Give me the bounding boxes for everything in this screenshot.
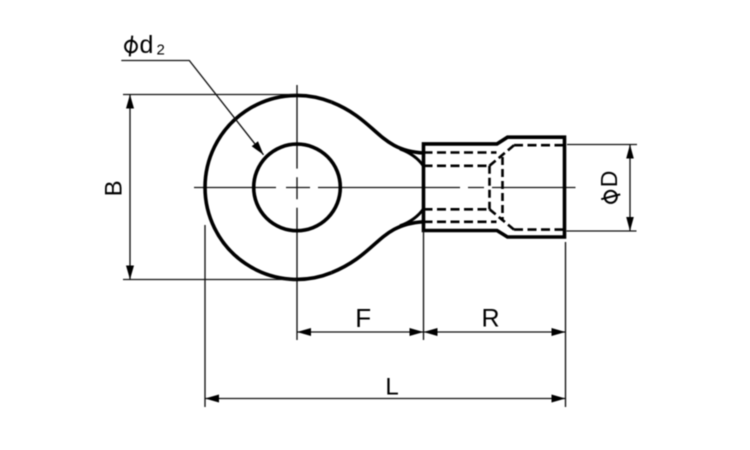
phi-d2 leader arrowhead <box>252 141 264 155</box>
phi-D top extension line <box>567 144 637 146</box>
hidden line: wire bore top <box>424 165 490 168</box>
barrel outline <box>424 137 565 237</box>
right extension line (barrel right edge) <box>565 242 567 407</box>
svg-text:R: R <box>481 304 499 332</box>
hidden line: sleeve bore bottom <box>514 228 564 231</box>
upper barrel mouth flare arc <box>400 149 424 166</box>
B dimension line <box>129 95 131 280</box>
F/R dimension line <box>297 331 566 333</box>
F/R boundary extension line (barrel left edge) <box>423 231 425 341</box>
lower barrel mouth flare arc <box>400 209 424 226</box>
phi-D label <box>596 171 622 203</box>
svg-text:d: d <box>140 31 154 59</box>
B arrow up <box>126 95 134 109</box>
vertical center line of ring <box>296 85 298 340</box>
phi-d2 leader line <box>121 61 263 155</box>
hidden line: crimp barrel OD top <box>424 151 497 154</box>
phi-D dimension line <box>629 145 631 232</box>
ring outer circle <box>205 95 331 279</box>
lower transition curve (ring to barrel) <box>331 222 423 273</box>
F arrow right <box>410 328 424 336</box>
hidden line: barrel end face outer edge <box>501 157 504 220</box>
phi-D arrow down <box>626 217 634 231</box>
svg-text:D: D <box>596 171 622 188</box>
B arrow down <box>126 266 134 280</box>
hidden line: barrel end face inner edge <box>488 166 491 210</box>
B dimension top extension line <box>123 94 297 96</box>
B dimension bottom extension line <box>123 279 297 281</box>
svg-text:F: F <box>355 303 371 333</box>
hidden line: funnel cone bottom <box>490 209 515 229</box>
R arrow left <box>424 328 438 336</box>
hidden line: crimp barrel OD bottom <box>424 221 497 224</box>
phi-D arrow up <box>626 145 634 159</box>
F arrow left <box>297 328 311 336</box>
hidden line: funnel cone top <box>490 145 515 166</box>
horizontal center line <box>194 187 576 189</box>
svg-text:B: B <box>101 180 128 196</box>
svg-text:2: 2 <box>157 42 165 59</box>
phi-D bottom extension line <box>567 230 637 232</box>
L arrow right <box>552 395 566 403</box>
L arrow left <box>205 395 219 403</box>
hidden line: sleeve bore top <box>514 144 564 147</box>
svg-text:L: L <box>385 374 398 401</box>
L dimension line <box>205 398 566 400</box>
ring inner hole circle <box>254 144 341 231</box>
L left extension line <box>204 225 206 407</box>
upper transition curve (ring to barrel) <box>331 102 423 153</box>
hidden line: wire bore bottom <box>424 208 490 211</box>
phi-d2 label <box>125 31 165 59</box>
R arrow right <box>552 328 566 336</box>
